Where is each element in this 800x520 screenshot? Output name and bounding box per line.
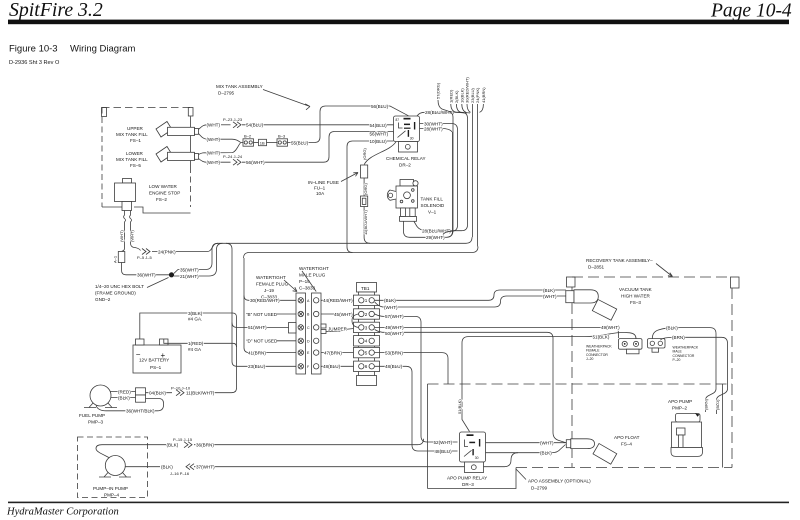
svg-text:11(BLK/WHT): 11(BLK/WHT) [186,391,215,396]
P-20 labels [673,346,699,363]
wire 28(WHT) relay right [420,129,453,132]
svg-text:DR–3: DR–3 [462,482,474,487]
battery bus vertical [214,317,237,393]
svg-text:55(BLU): 55(BLU) [291,140,309,145]
svg-text:28(WHT): 28(WHT) [424,127,443,132]
fuse A-1 [113,245,170,275]
weatherpack male connector P-20 [648,339,666,353]
fan wire hooks [451,104,484,113]
svg-text:C: C [307,326,310,330]
svg-text:(BRN): (BRN) [672,335,685,340]
svg-text:(BLK): (BLK) [384,298,396,303]
FS-1 wire leads [199,125,241,143]
frame ground junction node [169,272,174,277]
fuel pump ground loop 36(WHT/BLK) [96,399,164,411]
APO float FS-4 [566,439,616,464]
svg-text:FEMALE PLUG: FEMALE PLUG [256,282,289,287]
svg-text:P–5 J–5: P–5 J–5 [137,255,152,260]
svg-text:Page 10-4: Page 10-4 [710,1,792,22]
branch 30(RED/WHT) to plug A [244,296,296,301]
svg-text:10(BLU): 10(BLU) [370,139,388,144]
svg-text:(WHT): (WHT) [119,230,124,242]
wire 30(WHT) relay right [420,124,458,235]
wire 28(BLU/WHT) relay right [414,112,468,230]
svg-text:APO PUMP: APO PUMP [668,399,692,404]
svg-text:54(BLU): 54(BLU) [246,123,264,128]
wire (WHT) row1 to FS-3 float [375,296,566,307]
svg-text:12V BATTERY: 12V BATTERY [139,358,169,363]
svg-text:PUMP–IN PUMP: PUMP–IN PUMP [93,486,128,491]
fuse 1B [259,139,278,145]
svg-text:APO ASSEMBLY (OPTIONAL): APO ASSEMBLY (OPTIONAL) [528,479,591,484]
svg-text:V–1: V–1 [428,210,437,215]
fan labels 1(RED) 2(BLK) 10(BLK) 30(RED/WHT) 23(BLU) 24(PNK) 41(BRN) [448,77,486,103]
FS-2 pigtail wires [124,211,141,251]
svg-text:FS–5: FS–5 [130,163,141,168]
svg-text:48(BLU): 48(BLU) [323,364,341,369]
wire 51(BLK) from relay to J-20 [462,332,636,431]
J-20 labels [586,345,612,362]
P-5 J-5 connector and 24(PNK) [142,249,150,255]
svg-text:1/4–20 UNC HEX BOLT: 1/4–20 UNC HEX BOLT [95,284,144,289]
svg-text:MIX TANK ASSEMBLY: MIX TANK ASSEMBLY [216,84,263,89]
svg-text:TB1: TB1 [361,286,370,291]
svg-text:PMP–3: PMP–3 [88,420,104,425]
main bus row y=252.5 [244,247,479,259]
svg-text:FS–3: FS–3 [630,300,641,305]
PMP-4 wire 36(BRN) [96,445,166,458]
svg-text:30(RED/WHT): 30(RED/WHT) [465,77,470,103]
svg-text:10A: 10A [316,191,325,196]
svg-text:(WHT): (WHT) [543,294,557,299]
PMP-4 wire 37(WHT) [125,466,160,468]
svg-text:ENGINE STOP: ENGINE STOP [149,191,180,196]
svg-text:FS–2: FS–2 [156,197,167,202]
svg-text:51(WHT): 51(WHT) [248,325,267,330]
svg-text:FS–4: FS–4 [621,442,632,447]
mix tank dashed enclosure [102,108,194,214]
svg-text:51(BLK): 51(BLK) [457,399,462,414]
wire 55(BLU) rising to 56(BLU) into relay top [288,106,409,143]
weatherpack female connector J-20 [619,339,643,354]
svg-text:(WHT): (WHT) [540,441,554,446]
wire 29(WHT) solenoid to racetrack [404,132,453,237]
footer rule [8,502,789,504]
fuel pump leads [111,392,136,398]
svg-text:52(WHT): 52(WHT) [434,440,453,445]
svg-text:41(BRN): 41(BRN) [248,350,266,355]
svg-text:1(RED): 1(RED) [448,89,453,103]
riser x=232 down from bus to plug rows [226,243,237,366]
svg-text:P–24 J–24: P–24 J–24 [223,154,243,159]
wires 35(WHT) 21(WHT) rising from junction [174,243,223,276]
svg-text:UPPER: UPPER [127,126,144,131]
fuel pump connector [136,388,173,402]
svg-text:30(RED/WHT): 30(RED/WHT) [250,298,280,303]
wire 10(BLU) into relay pin [347,141,394,253]
svg-text:28(BLU/WHT): 28(BLU/WHT) [422,229,451,234]
svg-text:(ORG): (ORG) [362,148,367,160]
TB1 terminal block [357,283,377,386]
svg-text:B–2: B–2 [244,134,252,139]
svg-text:LOWER: LOWER [126,151,144,156]
svg-text:23(BLU): 23(BLU) [248,364,266,369]
mix tank assembly label [216,84,310,110]
jumper between TB1 row2 and row3 [352,314,359,327]
wire (BLK) row1 to FS-3 float [375,290,566,300]
svg-text:P–15 J–15: P–15 J–15 [173,437,193,442]
svg-text:PS–1: PS–1 [150,365,162,370]
APO assembly label [516,469,591,491]
wire 53(BRN) row5 [375,353,448,384]
riser x=244 down to plug rows [244,258,249,353]
svg-text:D–2851: D–2851 [588,265,605,270]
branch 23(BLU) to plug F [237,365,296,367]
pump-in pump PMP-4 [93,456,131,498]
svg-text:J–19: J–19 [264,288,274,293]
svg-text:LOW WATER: LOW WATER [149,184,177,189]
svg-text:53(BRN): 53(BRN) [385,350,403,355]
svg-text:3: 3 [365,325,368,330]
svg-text:1(RED): 1(RED) [188,341,204,346]
svg-text:(WHT): (WHT) [207,160,221,165]
APO assembly dashed boundary [428,384,733,489]
svg-text:49(WHT): 49(WHT) [601,325,620,330]
svg-text:D–2799: D–2799 [531,486,548,491]
APO pump PMP-2 [668,399,703,456]
svg-text:#4 GA: #4 GA [188,347,202,352]
svg-text:4: 4 [365,339,368,344]
svg-text:PMP–4: PMP–4 [104,493,120,498]
svg-text:56(WHT): 56(WHT) [370,131,389,136]
svg-text:MALE PLUG: MALE PLUG [299,273,326,278]
battery positive wire 1(RED) [164,339,237,347]
svg-text:Figure 10-3: Figure 10-3 [9,44,58,55]
svg-text:FUEL PUMP: FUEL PUMP [79,413,105,418]
svg-text:1: 1 [365,298,368,303]
svg-text:56(BLU): 56(BLU) [371,104,389,109]
APO pump relay DR-3 [460,432,486,462]
float switch FS-1 upper mix tank fill [116,122,199,143]
fuel pump PMP-3 [79,385,117,425]
svg-text:(BLU): (BLU) [715,399,720,410]
svg-text:“B” NOT USED: “B” NOT USED [246,312,278,317]
relay DR-2 bottom tab [399,142,418,153]
svg-text:51(BLK): 51(BLK) [593,335,610,340]
recovery tank dashed enclosure [567,277,740,468]
svg-text:(BLK): (BLK) [161,465,173,470]
female plug strip [289,293,306,374]
svg-text:11(BLU/WHT): 11(BLU/WHT) [363,210,368,235]
svg-text:“D” NOT USED: “D” NOT USED [246,339,278,344]
svg-text:MIX TANK FILL: MIX TANK FILL [116,157,148,162]
watertight male plug label P-19 [299,266,329,292]
svg-text:47(BRN): 47(BRN) [324,350,342,355]
svg-text:29(WHT): 29(WHT) [426,235,445,240]
relay DR-2 body [394,116,420,142]
svg-text:24(PNK): 24(PNK) [475,87,480,103]
svg-text:3(BLK): 3(BLK) [188,311,203,316]
svg-text:30: 30 [475,456,479,460]
svg-text:1B: 1B [260,141,265,146]
svg-text:SOLENOID: SOLENOID [421,203,445,208]
svg-text:D: D [307,339,310,343]
svg-text:(BLK): (BLK) [543,288,555,293]
diode B-3 [277,134,288,147]
svg-text:(BRN): (BRN) [703,398,708,410]
svg-text:B–3: B–3 [278,134,286,139]
recovery tank label [586,258,673,277]
svg-text:24(PNK): 24(PNK) [158,249,176,254]
svg-text:(BLK): (BLK) [540,451,552,456]
svg-text:J–16 P–16: J–16 P–16 [170,471,190,476]
svg-text:57(WHT): 57(WHT) [385,314,404,319]
wire (BRN) from P-20 to APO pump [660,337,727,414]
relay DR-3 bottom tab [465,462,484,473]
svg-text:GND–2: GND–2 [95,297,111,302]
low water engine stop FS-2 [115,179,181,211]
svg-text:D–2795: D–2795 [218,91,235,96]
svg-text:(WHT): (WHT) [384,305,398,310]
svg-text:C–3833: C–3833 [299,286,316,291]
wire 56(WHT) rising into relay [242,132,394,163]
svg-text:56(WHT): 56(WHT) [246,160,265,165]
svg-text:HIGH WATER: HIGH WATER [621,294,651,299]
fan bus verticals into page bus [471,108,473,237]
wire 57(WHT) row2 down to APO relay 52(WHT) [375,314,458,442]
svg-text:(WHT): (WHT) [130,230,135,242]
float switch FS-5 lower mix tank fill [116,147,199,168]
svg-text:(BLK): (BLK) [666,326,678,331]
wire (BLK) relay to APO float [486,445,566,453]
wire 50(WHT) row3 down to APO float (WHT) [375,330,566,443]
header rule [8,20,789,25]
svg-text:2(BLK): 2(BLK) [454,90,459,103]
svg-text:54(BLU): 54(BLU) [370,123,388,128]
svg-text:48(BLU): 48(BLU) [385,364,403,369]
in-line fuse label [308,173,358,197]
svg-text:FS–1: FS–1 [130,138,141,143]
svg-text:P–23 J–23: P–23 J–23 [223,117,243,122]
svg-text:48(BLU): 48(BLU) [435,449,453,454]
wire 48(BLU) row6 down to APO relay 48(BLU) [375,366,458,451]
diode B-2 [241,134,259,147]
svg-text:CHEMICAL RELAY: CHEMICAL RELAY [386,156,426,161]
branch 41(BRN) to plug E [249,352,296,354]
svg-text:5: 5 [365,351,368,356]
svg-text:(WHT): (WHT) [207,137,221,142]
svg-text:6: 6 [365,364,368,369]
svg-text:PMP–2: PMP–2 [672,406,688,411]
male plug strip [312,293,327,374]
branch 51(WHT) to plug C [232,323,289,328]
svg-text:APO FLOAT: APO FLOAT [614,435,640,440]
svg-text:TANK FILL: TANK FILL [421,197,444,202]
svg-text:37(WHT): 37(WHT) [196,465,215,470]
ground bolt label GND-2 [95,278,169,303]
watertight female plug label J-19 [256,275,297,300]
battery PS-1 [133,339,181,373]
svg-text:28(BLU/WHT): 28(BLU/WHT) [425,110,454,115]
svg-text:A–1: A–1 [113,255,118,263]
wire (BLK) from P-20 to APO pump [652,328,716,412]
svg-text:2: 2 [365,312,368,317]
wires male plug to TB1 [321,300,354,366]
svg-text:(WHT): (WHT) [207,123,221,128]
battery negative wire 3(BLK) [140,313,237,339]
svg-text:(WHT): (WHT) [207,150,221,155]
svg-text:36(WHT/BLK): 36(WHT/BLK) [126,409,155,414]
svg-text:04(BLK): 04(BLK) [149,391,166,396]
svg-text:50(WHT): 50(WHT) [385,331,404,336]
svg-text:IN–LINE FUSE: IN–LINE FUSE [308,180,339,185]
svg-text:36(WHT): 36(WHT) [137,273,156,278]
svg-text:J–20: J–20 [586,357,593,361]
svg-text:(BLK): (BLK) [167,443,179,448]
svg-text:30: 30 [410,137,414,141]
svg-text:VACUUM TANK: VACUUM TANK [619,287,653,292]
pin letters [307,299,310,369]
svg-text:49(WHT): 49(WHT) [385,325,404,330]
svg-text:21(WHT): 21(WHT) [180,274,199,279]
TB1 terminals 1-6 [354,295,380,371]
FS-5 wire leads [199,143,241,162]
pump-in pump PMP-4 dashed box [78,437,148,498]
svg-text:#4 GA.: #4 GA. [188,317,202,322]
svg-text:APO PUMP RELAY: APO PUMP RELAY [447,476,487,481]
wire 49(WHT) row3 to weatherpack J-20 [375,327,619,338]
wire 54(BLU) to relay [242,124,394,126]
float switch FS-3 vacuum tank high water [566,290,617,320]
svg-text:DR–2: DR–2 [399,163,411,168]
svg-text:57(ORG): 57(ORG) [436,82,441,99]
wire from relay to fuse [364,142,396,165]
svg-text:D-2936 Sht 3 Rev O: D-2936 Sht 3 Rev O [9,60,60,66]
svg-text:45(WHT): 45(WHT) [334,312,353,317]
svg-text:87: 87 [396,118,400,122]
svg-text:35(WHT): 35(WHT) [180,267,199,272]
svg-text:HydraMaster Corporation: HydraMaster Corporation [6,507,119,518]
main bus row y=243 [218,237,473,243]
wire 57(ORG) [436,82,454,237]
svg-text:(BLK): (BLK) [118,395,130,400]
svg-text:(ORG): (ORG) [363,183,368,195]
svg-text:SpitFire 3.2: SpitFire 3.2 [9,0,103,21]
svg-text:Wiring Diagram: Wiring Diagram [70,44,136,55]
in-line fuse FU-1 [361,148,371,244]
svg-text:44(RED/WHT): 44(RED/WHT) [323,298,353,303]
svg-text:MIX TANK FILL: MIX TANK FILL [116,132,148,137]
svg-text:(RED): (RED) [118,389,131,394]
svg-text:36(BRN): 36(BRN) [196,443,214,448]
wire (WHT) relay to APO float [486,442,567,444]
svg-text:(FRAME GROUND): (FRAME GROUND) [95,291,136,296]
svg-text:RECOVERY TANK ASSEMBLY–: RECOVERY TANK ASSEMBLY– [586,258,653,263]
svg-text:41(BRN): 41(BRN) [481,87,486,103]
svg-text:JUMPER: JUMPER [328,327,348,332]
svg-text:WATERTIGHT: WATERTIGHT [299,266,329,271]
svg-text:FU–1: FU–1 [314,186,326,191]
svg-text:P–20: P–20 [673,358,681,362]
svg-text:WATERTIGHT: WATERTIGHT [256,275,286,280]
